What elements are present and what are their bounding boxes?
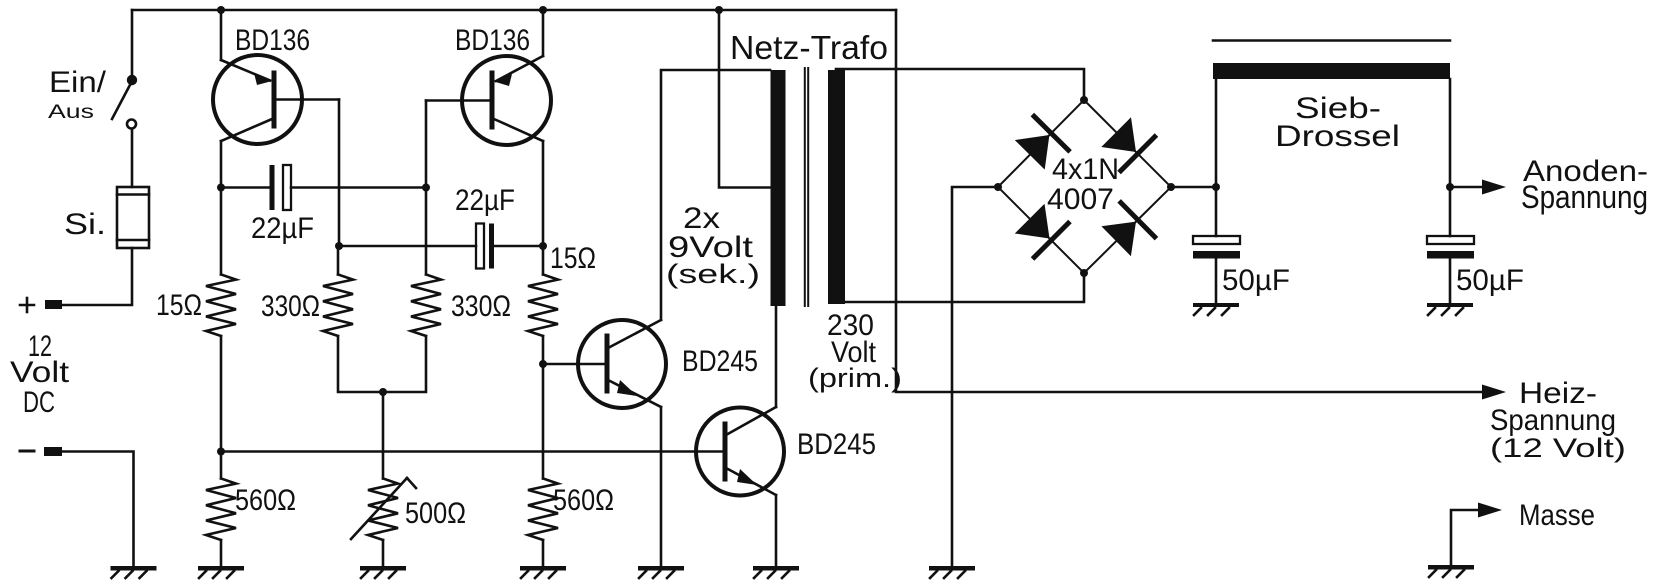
minus sign bbox=[20, 450, 34, 453]
svg-text:(12 Volt): (12 Volt) bbox=[1490, 433, 1626, 463]
node Q1 collector / C1 junction bbox=[217, 184, 225, 192]
svg-text:Masse: Masse bbox=[1519, 498, 1595, 531]
node C2 left junction bbox=[335, 242, 343, 250]
wire fuse to plus terminal bbox=[62, 248, 132, 305]
resistor R5 560 ohm bbox=[206, 479, 236, 541]
wire bridge left to ground bbox=[952, 187, 998, 566]
wire C1 right to Q2 base drop bbox=[291, 186, 426, 189]
svg-text:15Ω: 15Ω bbox=[156, 288, 202, 322]
wire Masse bbox=[1451, 510, 1479, 565]
wire switch to top rail bbox=[131, 10, 134, 76]
wire C4 top bbox=[1449, 187, 1452, 236]
switch S1 Ein/Aus lever bbox=[112, 83, 131, 119]
ground R7 bbox=[520, 566, 566, 578]
plus sign bbox=[20, 304, 34, 307]
wire C2 right to Q2 collector bbox=[494, 245, 543, 248]
transformer T1 primary winding bbox=[828, 70, 845, 304]
svg-text:500Ω: 500Ω bbox=[405, 496, 466, 530]
resistor R7 560 ohm bbox=[528, 479, 558, 541]
svg-text:Aus: Aus bbox=[48, 101, 94, 122]
svg-text:BD245: BD245 bbox=[682, 344, 758, 378]
svg-text:22µF: 22µF bbox=[455, 183, 515, 216]
transistor Q4 BD245 bbox=[696, 407, 784, 496]
ground R6 bbox=[360, 566, 406, 578]
capacitor C4 50uF bbox=[1427, 236, 1474, 259]
choke L1 core line bbox=[1213, 39, 1450, 42]
wire prim bottom to bridge bbox=[843, 273, 1084, 302]
svg-text:Spannung: Spannung bbox=[1521, 180, 1648, 215]
diode D2 bbox=[1101, 117, 1154, 170]
node Q3 base junction bbox=[539, 360, 547, 368]
wire Q1 collector down bbox=[220, 141, 223, 275]
svg-text:330Ω: 330Ω bbox=[451, 289, 511, 323]
node bridge right bbox=[1167, 183, 1175, 191]
wire R5 to ground bbox=[220, 540, 223, 566]
wire Q1 base over and down bbox=[338, 100, 341, 247]
wire Q2 base down bbox=[425, 101, 428, 188]
svg-text:2x: 2x bbox=[683, 200, 720, 234]
capacitor C2 22uF bbox=[476, 224, 494, 269]
resistor R1 15 ohm bbox=[206, 275, 236, 337]
svg-text:Drossel: Drossel bbox=[1275, 120, 1400, 153]
wire rail to Q1 emitter bbox=[220, 10, 223, 60]
node rail dot center tap bbox=[715, 6, 723, 14]
terminal minus bbox=[44, 447, 62, 456]
node bridge top bbox=[1080, 96, 1088, 104]
svg-text:BD136: BD136 bbox=[455, 23, 530, 57]
svg-text:BD245: BD245 bbox=[797, 427, 876, 460]
resistor R4 15 ohm bbox=[528, 275, 558, 337]
svg-text:DC: DC bbox=[23, 385, 55, 419]
svg-text:Volt: Volt bbox=[10, 355, 69, 389]
wire C3 top bbox=[1215, 187, 1218, 236]
wire rail to Q2 emitter bbox=[542, 10, 545, 56]
wire C4 to ground bbox=[1449, 259, 1452, 304]
node switch top dot bbox=[127, 75, 137, 85]
transistor Q2 BD136 bbox=[426, 56, 551, 145]
svg-text:Si.: Si. bbox=[64, 208, 106, 241]
svg-text:Ein/: Ein/ bbox=[49, 64, 106, 98]
ground Masse bbox=[1428, 565, 1474, 577]
wire R7 to ground bbox=[542, 540, 545, 566]
resistor R3 330 ohm bbox=[411, 275, 441, 337]
ground bridge bbox=[929, 566, 975, 578]
node filter left junction bbox=[1212, 183, 1220, 191]
svg-text:BD136: BD136 bbox=[235, 23, 310, 57]
svg-text:560Ω: 560Ω bbox=[235, 483, 296, 517]
ground Q3 bbox=[638, 566, 684, 578]
choke L1 winding bbox=[1213, 63, 1450, 79]
capacitor C3 50uF bbox=[1193, 236, 1240, 259]
wire Q4 collector up to sek bottom bbox=[775, 305, 778, 407]
wire ground rail bbox=[221, 450, 725, 453]
wire choke left down bbox=[1215, 79, 1218, 187]
wire C2 line left bbox=[339, 245, 476, 248]
wire C3 to ground bbox=[1215, 259, 1218, 304]
transformer T1 secondary winding bbox=[771, 70, 786, 306]
terminal plus bbox=[45, 300, 62, 309]
svg-text:4007: 4007 bbox=[1047, 183, 1114, 216]
wire R1 bottom down bbox=[220, 336, 223, 479]
wire C1 left bbox=[221, 186, 272, 189]
wire Anoden output bbox=[1450, 186, 1483, 189]
node ground rail left junction bbox=[217, 448, 225, 456]
svg-text:(prim.): (prim.) bbox=[808, 364, 902, 394]
potentiometer R6 500 ohm bbox=[368, 479, 398, 541]
wire switch to fuse bbox=[131, 129, 134, 187]
wire choke right down bbox=[1449, 79, 1452, 187]
ground C3 bbox=[1193, 303, 1239, 315]
svg-text:4x1N: 4x1N bbox=[1052, 152, 1119, 186]
node filter right junction bbox=[1446, 183, 1454, 191]
ground Q4 bbox=[753, 566, 799, 578]
svg-text:50µF: 50µF bbox=[1222, 264, 1290, 297]
wire Q3 base bbox=[543, 363, 607, 366]
node C1 right junction bbox=[422, 184, 430, 192]
wire Q3 collector up to sek top bbox=[661, 70, 770, 320]
wire center tap bbox=[719, 10, 770, 188]
svg-text:330Ω: 330Ω bbox=[261, 289, 320, 323]
wire prim top to bridge bbox=[836, 69, 1084, 100]
svg-text:(sek.): (sek.) bbox=[666, 258, 760, 289]
node rail dot Q2 bbox=[539, 6, 547, 14]
wire Q3 emitter to ground bbox=[660, 407, 663, 566]
ground minus bbox=[111, 566, 157, 578]
arrow Heiz bbox=[1482, 385, 1506, 400]
transistor Q3 BD245 bbox=[578, 320, 666, 408]
transistor Q1 BD136 bbox=[213, 55, 339, 144]
potentiometer R6 arrow bbox=[351, 478, 407, 539]
wire Q4 emitter to ground bbox=[775, 495, 778, 566]
svg-text:15Ω: 15Ω bbox=[550, 241, 596, 275]
svg-text:50µF: 50µF bbox=[1456, 264, 1524, 297]
wire top +12V rail bbox=[132, 9, 896, 12]
wire R2 R3 bottoms joined bbox=[338, 336, 426, 392]
svg-text:560Ω: 560Ω bbox=[553, 483, 614, 517]
wire R4 bottom down bbox=[542, 336, 545, 479]
wire R3 top bbox=[425, 188, 428, 275]
node bridge bottom bbox=[1080, 269, 1088, 277]
svg-text:22µF: 22µF bbox=[251, 212, 314, 245]
transformer T1 core bbox=[804, 68, 806, 306]
diode D1 bbox=[1015, 116, 1069, 169]
switch S1 bottom contact bbox=[127, 120, 136, 129]
resistor R2 330 ohm bbox=[323, 275, 353, 337]
wire Heiz from rail down bbox=[896, 10, 1483, 392]
capacitor C1 22uF bbox=[270, 165, 292, 210]
wire minus terminal to ground bbox=[62, 452, 134, 567]
arrow Masse bbox=[1478, 503, 1502, 518]
arrow Anoden bbox=[1482, 180, 1506, 195]
node R2 R3 mid junction bbox=[379, 388, 387, 396]
diode D3 bbox=[1015, 204, 1068, 257]
wire R2 top bbox=[337, 246, 340, 275]
ground C4 bbox=[1427, 303, 1473, 315]
diode bridge arms bbox=[998, 100, 1171, 273]
node bridge left bbox=[994, 183, 1002, 191]
diode D4 bbox=[1101, 203, 1154, 257]
wire bridge right to filter bbox=[1171, 186, 1216, 189]
node rail dot Q1 bbox=[217, 6, 225, 14]
wire Q2 collector down bbox=[542, 141, 545, 275]
node C2 right junction bbox=[539, 242, 547, 250]
ground R5 bbox=[198, 566, 244, 578]
wire junction down to pot bbox=[382, 392, 385, 479]
svg-text:Netz-Trafo: Netz-Trafo bbox=[730, 30, 888, 67]
fuse Si body bbox=[117, 187, 149, 248]
wire R6 to ground bbox=[382, 540, 385, 566]
